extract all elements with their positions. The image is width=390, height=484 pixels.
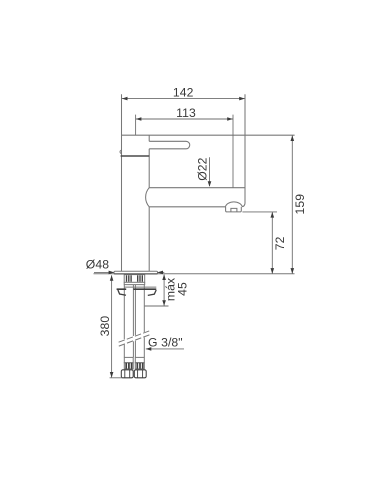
arrow 380 bottom <box>110 372 114 378</box>
base plate flange <box>114 271 158 274</box>
threaded shank block <box>124 275 145 283</box>
clamp right wing <box>148 290 156 295</box>
hose thread ribs left <box>126 363 131 369</box>
hose thread ribs right <box>137 363 142 369</box>
svg-text:Ø48: Ø48 <box>86 258 109 272</box>
svg-text:45: 45 <box>176 282 190 296</box>
svg-text:159: 159 <box>293 194 307 215</box>
left hose inner edge <box>132 285 134 358</box>
arrow 113 left <box>136 117 142 121</box>
svg-text:72: 72 <box>273 236 287 250</box>
right hex nut <box>134 370 146 378</box>
svg-text:380: 380 <box>98 316 112 337</box>
left hose collar <box>124 357 133 362</box>
left hose thread section <box>124 363 133 369</box>
aerator dome <box>225 202 242 207</box>
max 45 bottom extension <box>145 305 169 307</box>
arrow 72 top <box>271 212 275 218</box>
shank lower section <box>124 282 145 284</box>
dim 113 left extension <box>135 115 137 135</box>
arrow 380 top <box>110 275 114 281</box>
dim line max 45 <box>163 275 165 306</box>
arrow max45 top <box>162 274 166 280</box>
aerator body sides and bottom <box>226 207 242 212</box>
arrow 159 bottom <box>291 268 295 274</box>
faucet head/column right edge above lever <box>148 135 150 141</box>
pipe break slash lower <box>119 335 151 347</box>
dim 113 right extension <box>232 115 234 188</box>
clamp top line <box>125 286 157 288</box>
dim line 159 <box>291 135 293 273</box>
leader line G 3/8 <box>146 348 184 350</box>
head to body joint line <box>121 155 150 157</box>
arrow 142 left <box>122 97 128 101</box>
faucet head top edge + 159 extension line <box>122 134 295 136</box>
arrowheads <box>109 97 295 378</box>
arrow diameter 48 right <box>157 271 163 275</box>
base plate bottom edge accent <box>114 273 157 275</box>
dim line diameter 48 right <box>158 271 165 273</box>
arrow G3/8 leader <box>146 347 152 351</box>
faucet column right edge below spout <box>148 207 150 271</box>
shank thread ribs <box>127 275 143 282</box>
right hose thread section <box>135 363 144 369</box>
spout bottom edge <box>149 206 225 208</box>
dim line 113 <box>136 118 233 120</box>
clamp left wing <box>118 290 126 295</box>
clamp bar <box>117 288 157 290</box>
faucet body column left edge + 142 left extension <box>121 94 123 271</box>
arrow max45 bottom <box>162 300 166 306</box>
380 bottom reference line <box>110 377 123 379</box>
deck line right of plate + 159/72 extension <box>158 273 295 275</box>
leader line diameter 22 <box>209 157 211 186</box>
aerator bottom extension for 72 <box>242 211 277 213</box>
set screw bump on head left <box>120 150 122 153</box>
svg-text:113: 113 <box>176 106 196 120</box>
arrow diameter 22 leader <box>208 181 212 187</box>
left hose outer edge <box>123 285 125 358</box>
pipe break slash upper <box>119 331 151 343</box>
dim line 72 <box>271 212 273 274</box>
arrow 72 bottom <box>271 268 275 274</box>
svg-text:142: 142 <box>173 85 194 99</box>
right hose collar <box>135 357 144 362</box>
dim line diameter 48 left <box>94 271 114 273</box>
deck line left of plate <box>94 273 115 275</box>
lever handle <box>149 141 190 149</box>
svg-text:G 3/8": G 3/8" <box>148 335 183 349</box>
right hose outer edge <box>143 285 145 358</box>
spout left end bulge <box>146 188 150 207</box>
arrow 113 right <box>227 117 233 121</box>
arrow 159 top <box>291 135 295 141</box>
spout top edge <box>149 187 245 189</box>
svg-text:Ø22: Ø22 <box>196 157 210 180</box>
arrow diameter 48 left <box>109 271 115 275</box>
dim line 380 <box>111 275 113 377</box>
dim line 142 <box>122 98 245 100</box>
dimension and leader lines <box>94 99 292 378</box>
arrow 142 right <box>239 97 245 101</box>
faucet column right edge between lever and spout <box>148 149 150 188</box>
spout right edge + 142 right extension <box>242 94 245 207</box>
aerator outlet notch <box>231 208 237 212</box>
left hex nut <box>121 370 133 378</box>
right hose inner edge <box>134 285 136 358</box>
